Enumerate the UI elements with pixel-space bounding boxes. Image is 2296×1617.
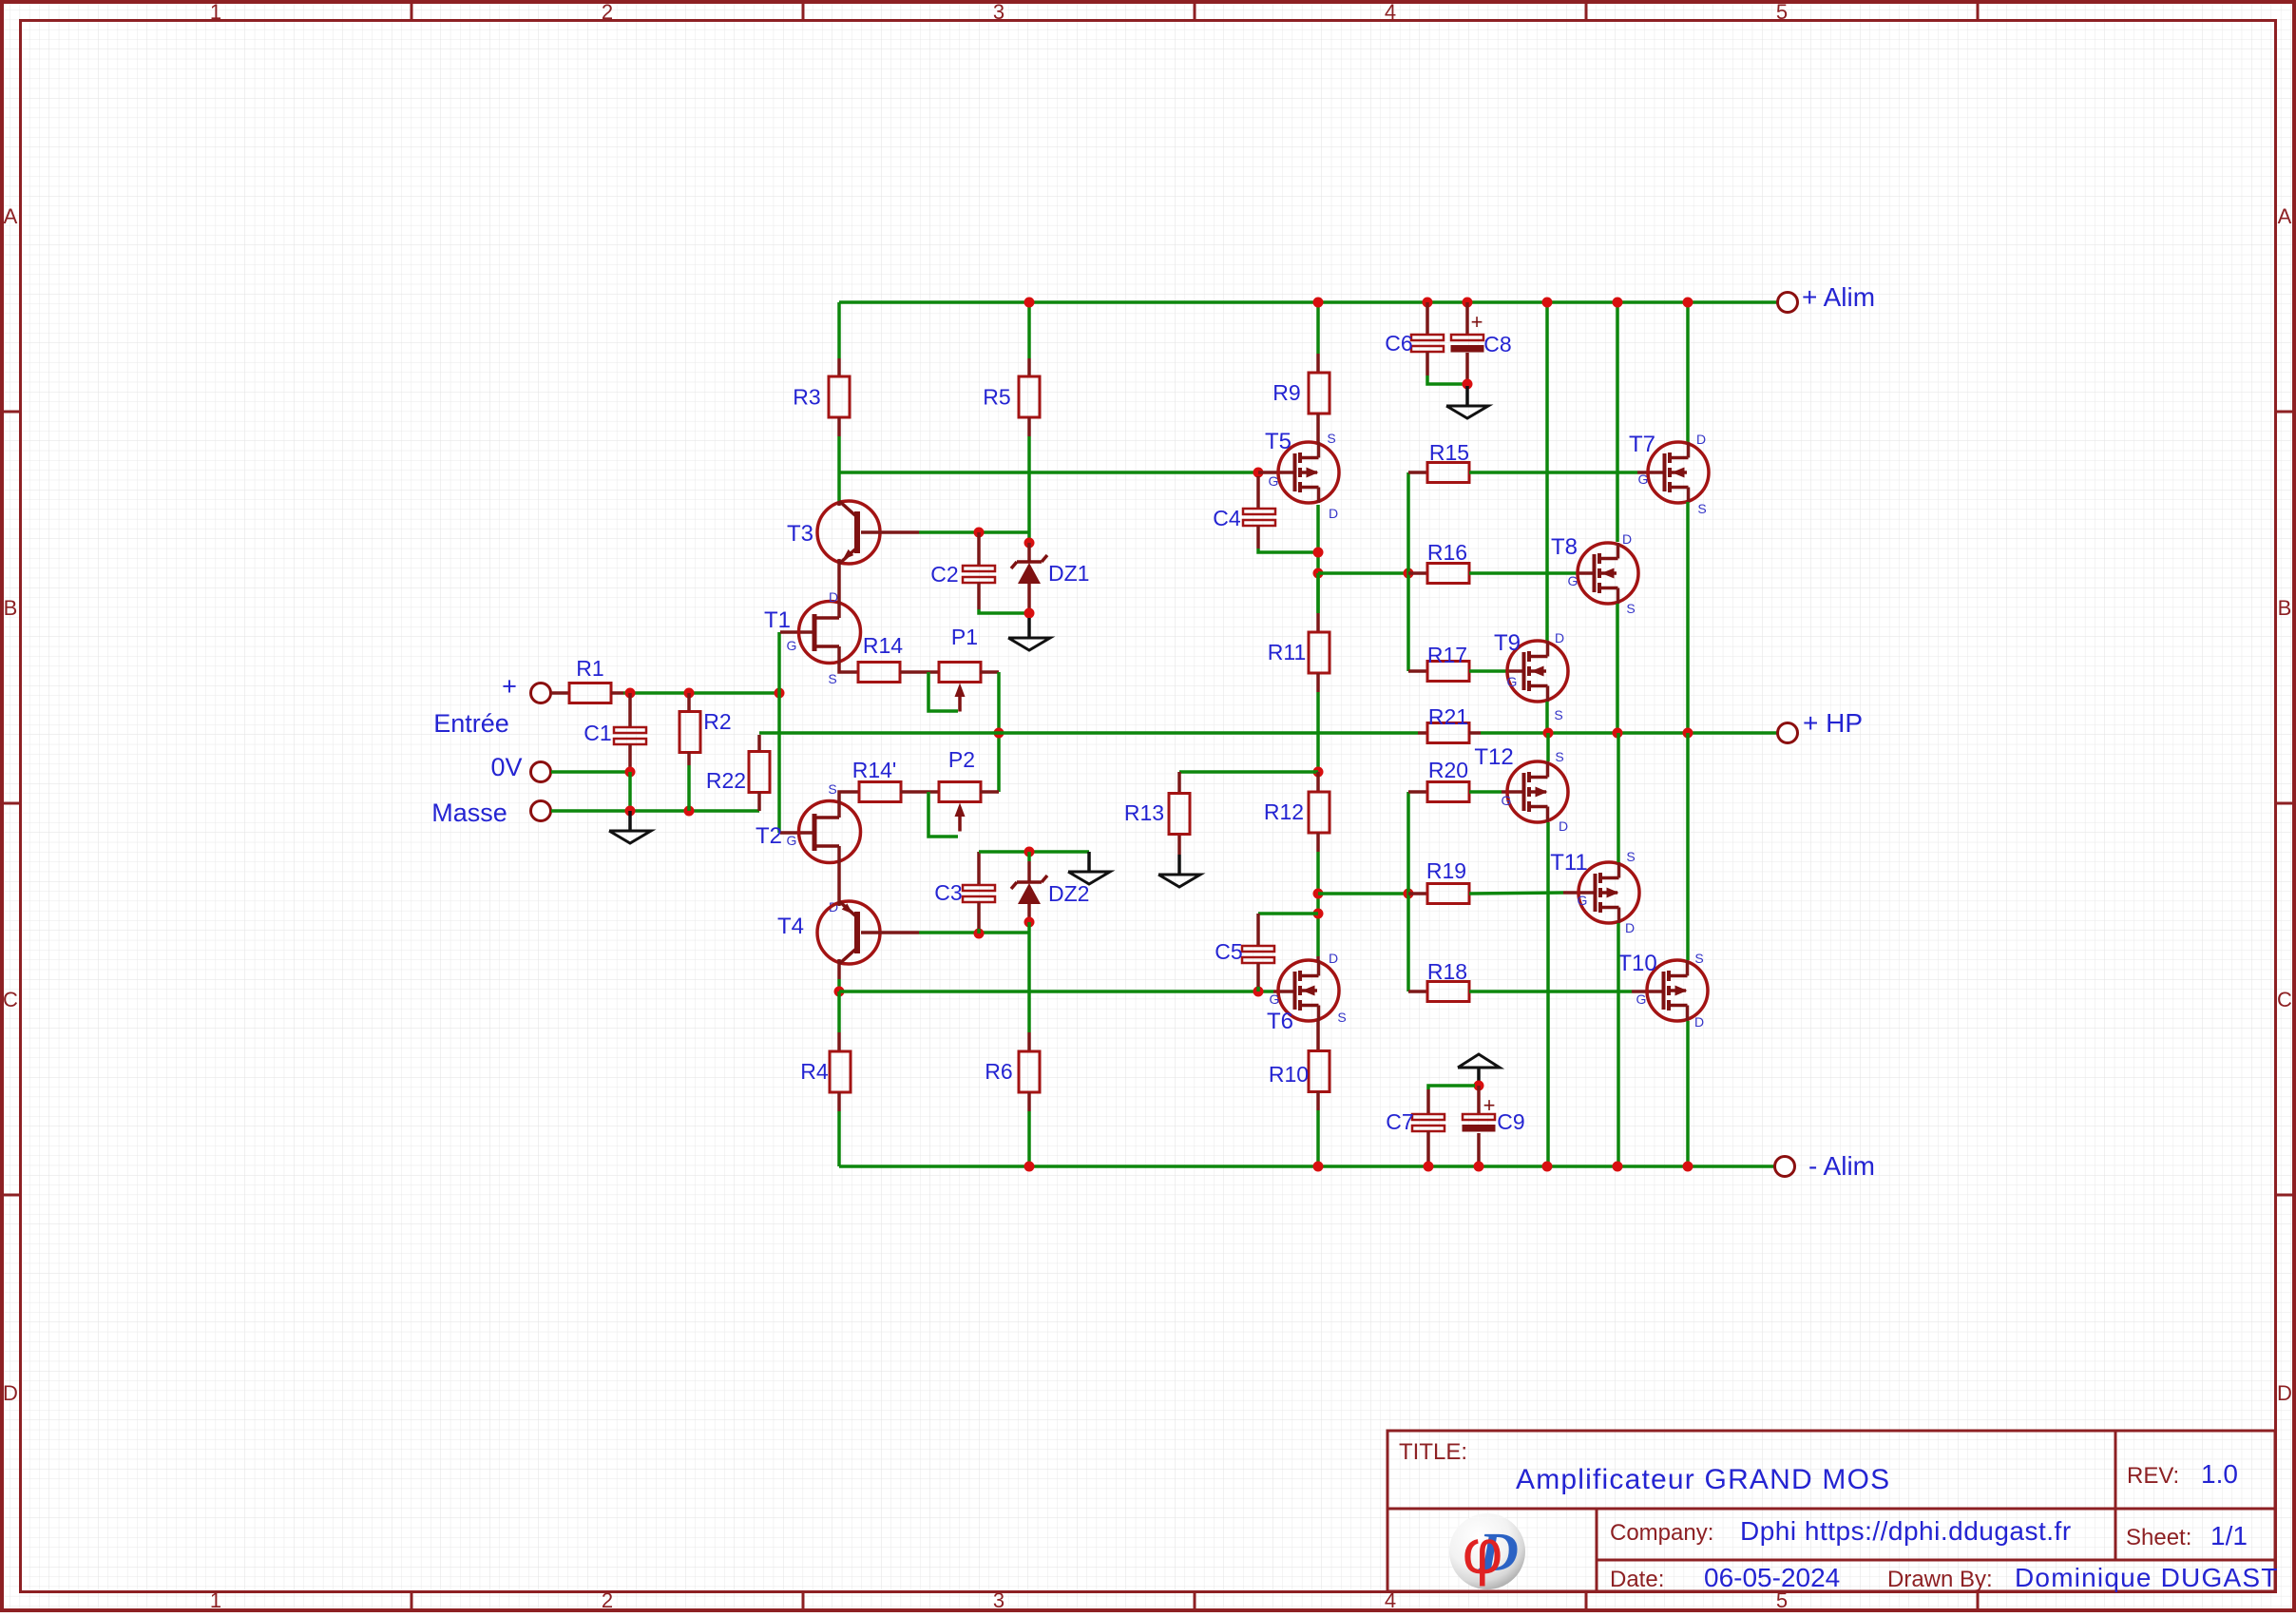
wire T10 source up <box>1686 733 1690 960</box>
wire R11 bottom lead <box>1316 673 1320 692</box>
wire R22 bottom lead <box>757 792 761 811</box>
wire T8 drain riser <box>1616 302 1619 542</box>
wire C5 bottom lead <box>1256 963 1260 987</box>
wire T7 drain riser <box>1686 302 1690 442</box>
ground (flipped) at C9 <box>1458 1054 1500 1086</box>
svg-text:Drawn By:: Drawn By: <box>1887 1567 1993 1592</box>
svg-text:+: + <box>1471 310 1483 334</box>
resistor R2 <box>679 712 700 753</box>
wire C3 bottom lead <box>977 902 981 929</box>
wire P2 wiper loop <box>928 792 958 837</box>
junction <box>1313 767 1324 778</box>
wire T4 emitter lead <box>837 964 841 979</box>
wire T12 source up <box>1546 733 1550 761</box>
resistor R15 <box>1427 463 1469 483</box>
wire C5 to gate line <box>1256 987 1260 991</box>
wire R16 left lead <box>1408 571 1427 575</box>
resistor R10 <box>1309 1051 1330 1092</box>
svg-text:D: D <box>1329 951 1338 966</box>
wire T11 source up <box>1617 733 1620 862</box>
svg-text:5: 5 <box>1776 0 1788 24</box>
wire T7 gate lead <box>1637 471 1664 474</box>
svg-text:S: S <box>1327 431 1335 446</box>
capacitor C1 <box>614 727 646 744</box>
resistor R9 <box>1309 373 1330 414</box>
resistor R14 <box>858 663 900 683</box>
svg-text:D: D <box>1559 818 1568 834</box>
junction <box>625 806 636 817</box>
wire C5 top lead <box>1256 914 1260 946</box>
svg-text:R16: R16 <box>1427 540 1467 565</box>
capacitor C2 <box>963 566 995 583</box>
wire P1-P2 junction riser <box>997 672 1001 792</box>
wire input to R1 <box>551 691 569 695</box>
resistor R12 <box>1309 792 1330 833</box>
wire T3 collector to T5 gate <box>839 471 1258 474</box>
junction <box>625 767 636 778</box>
wire R2 to Masse <box>687 765 691 811</box>
wire upper gate bus <box>1406 472 1410 671</box>
wire to R13 <box>1179 770 1318 774</box>
svg-text:C1: C1 <box>584 721 611 745</box>
port input 0V <box>531 762 551 782</box>
svg-text:C2: C2 <box>930 562 958 587</box>
svg-text:G: G <box>1502 793 1512 808</box>
junction -Alim rail <box>1683 1162 1693 1172</box>
wire R17 to T9 gate <box>1469 669 1509 673</box>
svg-text:R17: R17 <box>1427 643 1467 667</box>
wire R13 top lead <box>1177 772 1181 792</box>
svg-text:REV:: REV: <box>2127 1463 2179 1489</box>
capacitor C6 <box>1411 335 1444 352</box>
svg-text:T12: T12 <box>1474 744 1513 770</box>
svg-text:R22: R22 <box>706 768 746 793</box>
wire T8 source down <box>1616 604 1619 733</box>
junction +Alim rail <box>1613 298 1623 308</box>
svg-text:Amplificateur GRAND MOS: Amplificateur GRAND MOS <box>1516 1464 1890 1495</box>
svg-text:R21: R21 <box>1428 704 1468 729</box>
svg-text:R9: R9 <box>1272 380 1300 405</box>
resistor R22 <box>749 752 770 793</box>
junction +Alim rail <box>1024 298 1035 308</box>
junction <box>1404 889 1414 899</box>
junction +Alim rail <box>1423 298 1433 308</box>
svg-text:T9: T9 <box>1494 630 1521 656</box>
ground at Masse <box>609 811 651 843</box>
svg-text:C4: C4 <box>1213 506 1241 530</box>
wire R6 top lead <box>1027 1032 1031 1051</box>
wire C3 top lead <box>977 852 981 885</box>
potentiometer P1 <box>939 663 981 712</box>
junction -Alim rail <box>1424 1162 1434 1172</box>
svg-text:S: S <box>1697 501 1706 516</box>
ground at DZ2 <box>1068 852 1110 884</box>
junction <box>684 806 695 817</box>
svg-text:R12: R12 <box>1264 799 1304 824</box>
junction DZ1 cathode <box>1024 538 1035 549</box>
svg-text:G: G <box>1578 893 1588 908</box>
svg-text:Date:: Date: <box>1610 1567 1664 1592</box>
wire R3 to T3 collector <box>837 436 841 501</box>
wire R1 right lead <box>611 691 623 695</box>
svg-text:Dominique DUGAST: Dominique DUGAST <box>2015 1563 2279 1592</box>
svg-text:1/1: 1/1 <box>2210 1521 2248 1550</box>
wire R9 top <box>1316 302 1320 354</box>
svg-text:R1: R1 <box>576 656 603 681</box>
junction <box>625 688 636 699</box>
wire Masse line <box>551 809 759 813</box>
wire R2 bottom lead <box>687 752 691 765</box>
svg-text:R14': R14' <box>852 758 897 782</box>
wire R4 top lead <box>837 1032 841 1051</box>
wire C2 bottom lead <box>977 583 981 609</box>
svg-text:T4: T4 <box>777 914 804 939</box>
svg-text:S: S <box>828 671 836 686</box>
junction DZ1 anode <box>1024 608 1035 619</box>
svg-text:T10: T10 <box>1617 951 1656 976</box>
svg-text:R20: R20 <box>1428 758 1468 782</box>
wire T3 emitter to T1 drain <box>837 564 841 602</box>
svg-text:S: S <box>1694 951 1703 966</box>
wire T3 base lead <box>861 530 919 534</box>
transistor T7 (MOSFET) <box>1648 442 1709 503</box>
wire R9 to T5 source <box>1316 414 1320 443</box>
svg-text:B: B <box>2278 596 2292 620</box>
resistor R19 <box>1427 884 1469 904</box>
wire C2 to ground node <box>979 609 1029 613</box>
wire T1 source to R14 <box>839 663 858 672</box>
junction <box>1313 568 1324 579</box>
junction -Alim rail <box>1024 1162 1035 1172</box>
resistor R5 <box>1019 376 1040 417</box>
wire R3 top <box>837 302 841 358</box>
junction +Alim rail <box>1463 298 1473 308</box>
wire C6 to C8 node <box>1427 375 1464 384</box>
svg-text:R2: R2 <box>703 709 731 734</box>
svg-text:3: 3 <box>993 0 1004 24</box>
junction <box>1313 909 1324 919</box>
junction C5 bottom <box>1253 987 1264 997</box>
svg-text:T7: T7 <box>1629 432 1655 457</box>
svg-text:DZ2: DZ2 <box>1048 881 1089 906</box>
wire (pin lead) <box>1316 354 1320 373</box>
svg-text:R4: R4 <box>800 1059 829 1084</box>
junction +Alim rail <box>1313 298 1324 308</box>
svg-text:D: D <box>1622 531 1632 547</box>
junction -Alim rail <box>1313 1162 1324 1172</box>
wire T3 base to DZ1 node <box>919 530 1029 534</box>
svg-text:C8: C8 <box>1483 332 1511 356</box>
svg-text:R10: R10 <box>1269 1062 1309 1087</box>
svg-text:T11: T11 <box>1550 850 1588 876</box>
resistor R20 <box>1427 782 1469 802</box>
wire DZ2 to T4 base <box>1027 922 1031 934</box>
svg-text:P2: P2 <box>948 747 975 772</box>
wire R5 top <box>1027 302 1031 358</box>
svg-text:Dphi https://dphi.ddugast.fr: Dphi https://dphi.ddugast.fr <box>1740 1516 2072 1546</box>
potentiometer P2 <box>939 782 981 832</box>
ground at C8 <box>1446 386 1488 418</box>
wire T6 drain to lower bus <box>1318 892 1408 895</box>
svg-text:+: + <box>502 672 517 701</box>
svg-text:C7: C7 <box>1386 1109 1413 1134</box>
junction -Alim rail <box>1542 1162 1553 1172</box>
wire C5 top link <box>1258 912 1318 915</box>
wire DZ2 anode lead <box>1027 904 1031 918</box>
junction -Alim rail <box>1474 1162 1484 1172</box>
junction <box>1024 847 1035 857</box>
svg-text:3: 3 <box>993 1588 1004 1612</box>
wire R15 left lead <box>1408 471 1427 474</box>
wire R4 bottom lead <box>837 1092 841 1111</box>
wire T4 base line <box>919 931 1029 934</box>
svg-text:Company:: Company: <box>1610 1520 1713 1546</box>
wire T9 source down <box>1545 702 1549 733</box>
svg-text:C6: C6 <box>1385 331 1412 356</box>
junction <box>834 987 845 997</box>
wire R12 to T6 drain <box>1316 852 1320 956</box>
wire R19 left lead <box>1408 892 1427 895</box>
svg-text:G: G <box>1636 991 1647 1007</box>
wire input line <box>623 691 779 695</box>
wire T1 gate lead <box>780 630 814 634</box>
wire R18 left lead <box>1408 990 1427 993</box>
wire P2 right lead <box>980 790 999 794</box>
svg-text:S: S <box>828 781 836 797</box>
svg-text:C5: C5 <box>1215 939 1242 964</box>
transistor T12 (MOSFET) <box>1507 761 1568 822</box>
transistor T6 (MOSFET) <box>1278 960 1339 1021</box>
wire C9 bottom lead <box>1477 1133 1481 1166</box>
wire R2 top lead <box>687 693 691 712</box>
wire C6 top lead <box>1425 302 1429 335</box>
transistor T3 (BJT) <box>817 501 880 564</box>
svg-text:R14: R14 <box>863 633 903 658</box>
wire C8 bottom lead <box>1465 353 1469 384</box>
wire C7 to C9 node <box>1428 1086 1475 1089</box>
wire 0V to Masse <box>628 772 632 811</box>
svg-text:0V: 0V <box>490 753 522 781</box>
wire T10 gate lead <box>1632 990 1663 993</box>
junction <box>684 688 695 699</box>
wire R11 top lead <box>1316 613 1320 632</box>
svg-text:G: G <box>1568 573 1578 588</box>
wire T5 gate lead <box>1258 471 1294 474</box>
resistor R16 <box>1427 564 1469 584</box>
wire +Alim rail <box>839 300 1777 304</box>
svg-text:1.0: 1.0 <box>2201 1459 2238 1489</box>
svg-text:D: D <box>1625 920 1635 935</box>
svg-text:R11: R11 <box>1268 640 1307 664</box>
wire (pin lead) <box>837 417 841 436</box>
title block frame <box>1387 1431 2275 1591</box>
wire T12 gate lead <box>1502 790 1523 794</box>
wire lower gate bus <box>1406 792 1410 991</box>
capacitor C5 <box>1242 946 1274 963</box>
port + Alim <box>1778 293 1798 313</box>
svg-text:D: D <box>1555 630 1564 645</box>
svg-text:4: 4 <box>1385 0 1396 24</box>
svg-text:φ: φ <box>1463 1516 1503 1587</box>
junction <box>1313 548 1324 558</box>
svg-text:B: B <box>4 596 18 620</box>
port input + <box>531 683 551 703</box>
resistor R6 <box>1019 1051 1040 1092</box>
capacitor C4 <box>1243 509 1275 526</box>
svg-text:D: D <box>829 589 838 605</box>
wire C3 to T4 base <box>977 929 981 934</box>
svg-text:D: D <box>1694 1014 1704 1030</box>
wire P1 wiper loop <box>928 672 958 711</box>
wire T4 emitter to T6 gate <box>839 990 1273 993</box>
junction <box>994 728 1004 739</box>
svg-text:Entrée: Entrée <box>433 709 509 738</box>
wire R21 right lead <box>1469 731 1481 735</box>
wire DZ1 anode lead <box>1027 584 1031 609</box>
wire -Alim rail <box>839 1165 1774 1168</box>
svg-text:S: S <box>1626 601 1635 616</box>
junction <box>1463 379 1473 390</box>
junction <box>1474 1081 1484 1091</box>
wire T6 source to R10 <box>1316 1021 1320 1051</box>
svg-text:T2: T2 <box>756 823 782 849</box>
svg-text:R13: R13 <box>1124 800 1164 825</box>
wire 0V line <box>551 770 630 774</box>
svg-text:Sheet:: Sheet: <box>2126 1525 2191 1550</box>
svg-text:2: 2 <box>602 1588 613 1612</box>
port - Alim <box>1775 1157 1795 1177</box>
wire R20 left lead <box>1408 790 1427 794</box>
wire R12 bottom lead <box>1316 833 1320 852</box>
transistor T5 (MOSFET) <box>1278 442 1339 503</box>
wire T2 source to R14' <box>839 792 859 803</box>
wire T11 gate lead <box>1563 891 1595 895</box>
svg-text:G: G <box>787 638 797 653</box>
transistor T11 (MOSFET) <box>1578 862 1639 923</box>
capacitor C9 <box>1463 1114 1496 1132</box>
svg-text:T6: T6 <box>1267 1009 1293 1034</box>
svg-text:S: S <box>1555 749 1563 764</box>
wire T12 drain down <box>1546 822 1550 1166</box>
wire R12 top lead <box>1316 772 1320 792</box>
svg-text:T3: T3 <box>787 521 813 547</box>
junction <box>1543 728 1554 739</box>
wire C9 top lead <box>1477 1086 1481 1114</box>
resistor R14p <box>859 782 901 802</box>
svg-text:R5: R5 <box>983 385 1010 410</box>
junction <box>1313 889 1324 899</box>
capacitor C7 <box>1412 1114 1445 1131</box>
svg-text:+: + <box>1483 1093 1496 1117</box>
wire P1 right lead <box>980 670 999 674</box>
wire R15 to T7 gate <box>1469 471 1637 474</box>
wire node to R4 <box>837 991 841 1032</box>
svg-text:Masse: Masse <box>431 799 507 827</box>
wire T1/T2 gate bus <box>777 632 781 833</box>
wire R11 to R12 <box>1316 692 1320 772</box>
wire R19 to T11 gate <box>1469 893 1563 894</box>
wire T5 drain node down <box>1316 573 1320 613</box>
resistor R4 <box>830 1051 851 1092</box>
svg-text:R6: R6 <box>985 1059 1012 1084</box>
junction <box>974 528 985 538</box>
transistor T2 (FET) <box>799 801 861 863</box>
capacitor C3 <box>963 885 995 902</box>
wire (pin lead) <box>1027 358 1031 376</box>
svg-text:1: 1 <box>210 1588 221 1612</box>
wire T4 base lead <box>861 931 919 934</box>
transistor T9 (MOSFET) <box>1507 641 1568 702</box>
svg-text:G: G <box>1270 991 1280 1007</box>
resistor R17 <box>1427 662 1469 682</box>
svg-text:+ HP: + HP <box>1803 708 1863 738</box>
svg-text:R3: R3 <box>793 385 820 410</box>
svg-text:2: 2 <box>602 0 613 24</box>
svg-text:C9: C9 <box>1497 1109 1524 1134</box>
wire (pin lead) <box>837 358 841 376</box>
wire T9 gate lead <box>1509 669 1523 673</box>
wire R10 bottom lead <box>1316 1091 1320 1110</box>
capacitor C8 <box>1451 335 1484 353</box>
wire R4 to -Alim rail <box>837 1111 841 1166</box>
svg-text:R18: R18 <box>1427 959 1467 984</box>
wire R6 to -Alim rail <box>1027 1111 1031 1166</box>
ground at DZ1 <box>1008 618 1050 650</box>
wire T10 drain down <box>1686 1021 1690 1166</box>
wire T8 gate lead <box>1578 571 1594 575</box>
junction <box>1613 728 1623 739</box>
wire DZ2 cathode stub <box>1027 852 1031 861</box>
port input Masse <box>531 801 551 821</box>
junction <box>1683 728 1693 739</box>
svg-text:S: S <box>1626 849 1635 864</box>
wire DZ2 cathode lead <box>1027 861 1031 882</box>
svg-text:C: C <box>3 988 18 1011</box>
svg-text:A: A <box>4 204 18 228</box>
svg-text:+ Alim: + Alim <box>1802 282 1875 312</box>
wire DZ1 cathode lead <box>1027 543 1031 562</box>
svg-text:G: G <box>1269 473 1279 489</box>
wire T11 drain down <box>1617 923 1620 1166</box>
svg-text:- Alim: - Alim <box>1808 1151 1875 1181</box>
svg-text:C: C <box>2277 988 2292 1011</box>
wire T5 drain to R16 <box>1318 571 1408 575</box>
junction <box>775 688 785 699</box>
wire C7 top lead <box>1426 1089 1430 1114</box>
junction DZ2 anode <box>1024 917 1035 928</box>
wire C4 to T5 drain node <box>1258 549 1318 552</box>
junction +Alim rail <box>1683 298 1693 308</box>
wire T9 drain riser <box>1545 302 1549 641</box>
wire T6 drain entry <box>1316 956 1320 960</box>
svg-text:06-05-2024: 06-05-2024 <box>1704 1563 1840 1592</box>
junction +Alim rail <box>1542 298 1553 308</box>
wire R16 to T8 gate <box>1469 571 1578 575</box>
transistor T1 (FET) <box>799 602 861 664</box>
wire R17 left lead <box>1408 669 1428 673</box>
transistor T10 (MOSFET) <box>1647 960 1708 1021</box>
svg-text:D: D <box>3 1381 18 1405</box>
wire T7 source down <box>1686 502 1690 733</box>
wire C4 bottom lead <box>1256 526 1260 549</box>
svg-text:D: D <box>2277 1381 2292 1405</box>
svg-text:G: G <box>1507 674 1518 689</box>
wire T4 emitter to node <box>837 979 841 991</box>
svg-text:A: A <box>2278 204 2292 228</box>
svg-text:T8: T8 <box>1551 534 1578 560</box>
wire R18 to T10 gate <box>1469 990 1632 993</box>
wire +HP line left <box>759 731 1418 735</box>
